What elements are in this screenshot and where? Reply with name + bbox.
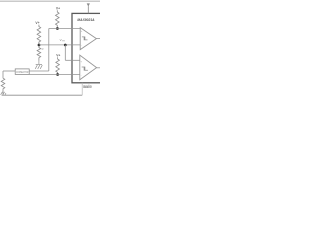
node dot at R2/R3 tap: [38, 44, 41, 47]
reference wire: tap to comparator A IN-: [39, 44, 81, 46]
node dot: reference branch junction: [64, 44, 67, 47]
svg-text:+: +: [81, 30, 83, 33]
power supply V+ arrow above IC: [87, 6, 89, 13]
resistor R4: [56, 57, 60, 73]
ground hatches at rail: [1, 92, 6, 95]
svg-text:-: -: [81, 45, 82, 48]
svg-text:R: R: [42, 47, 44, 51]
wire: connector lower lead to comparator B IN-: [29, 73, 80, 75]
svg-text:TH: TH: [62, 40, 65, 42]
wire: junction down: [64, 45, 66, 60]
top border rule: [0, 0, 100, 2]
resistor R1: [56, 10, 60, 27]
svg-text:maxim: maxim: [83, 84, 92, 89]
wire: tap to comparator A IN+: [49, 28, 81, 30]
svg-text:V+: V+: [56, 7, 60, 11]
op-amp U1B (comparator B triangle): [80, 55, 97, 80]
U1A hysteresis symbol: [82, 37, 88, 40]
wire: to comparator B IN+: [65, 59, 80, 61]
svg-text:CONNECTOR: CONNECTOR: [16, 70, 28, 74]
svg-text:V+: V+: [56, 54, 60, 58]
node dot at R4 bottom: [56, 73, 59, 76]
ground rail wire: [2, 94, 83, 96]
U1A output stub: [96, 38, 100, 40]
IC box U1 (MAX comparator, clipped at right edge): [72, 13, 102, 82]
wire: left vertical down to R5: [2, 71, 4, 78]
svg-text:+: +: [81, 60, 83, 63]
svg-text:-: -: [81, 74, 82, 77]
wire: connector left lead: [3, 70, 15, 72]
U1B output stub: [97, 67, 100, 69]
U1B hysteresis symbol: [82, 67, 88, 70]
ground symbol under R3: [35, 61, 42, 69]
op-amp U1A (comparator A triangle): [80, 28, 96, 50]
resistor R5: [1, 78, 5, 95]
resistor R2: [37, 25, 41, 44]
svg-text:MAX9021A: MAX9021A: [77, 17, 94, 22]
node dot at R1 tap: [56, 27, 59, 30]
svg-text:V+: V+: [35, 21, 39, 25]
resistor R3: [37, 46, 41, 61]
wire: connector upper right lead to vertical: [29, 70, 49, 72]
connector box J1: [15, 69, 29, 75]
wire: long vertical from tap corner down to connector line: [48, 29, 50, 72]
wire: IC ground stub: [81, 83, 83, 95]
